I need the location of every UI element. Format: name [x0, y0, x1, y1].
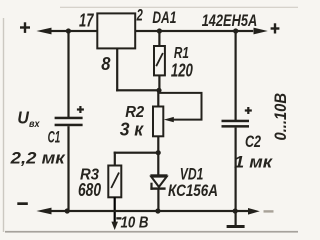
wire input rail with left arrow: [36, 28, 97, 35]
capacitor C2: [222, 31, 252, 212]
input plus terminal: [20, 22, 30, 33]
svg-text:U: U: [17, 108, 29, 128]
wire bottom rail with arrows: [36, 208, 259, 215]
minus terminal bottom left: [17, 202, 28, 205]
junction C1 bottom: [65, 208, 70, 213]
zener diode VD1: [150, 153, 167, 211]
svg-text:3 к: 3 к: [120, 120, 144, 140]
wire pin 8 to junction: [116, 48, 159, 91]
ground: [227, 211, 245, 228]
junction R1 top: [157, 28, 162, 33]
svg-text:1 мк: 1 мк: [234, 153, 273, 172]
svg-text:2,2 мк: 2,2 мк: [10, 149, 67, 168]
output plus terminal: [271, 23, 280, 33]
svg-text:17: 17: [79, 10, 95, 31]
svg-text:DA1: DA1: [152, 9, 176, 27]
wire junction to R3: [114, 152, 159, 166]
junction pin8 R1 R2: [156, 88, 161, 93]
dash before 10 V: [116, 217, 121, 219]
regulator DA1 box: [97, 13, 135, 48]
svg-text:вх: вх: [29, 118, 40, 130]
capacitor C1: [55, 31, 84, 211]
svg-text:10 В: 10 В: [121, 215, 149, 232]
svg-text:С1: С1: [48, 129, 61, 147]
svg-text:2: 2: [136, 7, 143, 25]
resistor R3: [108, 166, 121, 224]
svg-text:R1: R1: [174, 45, 189, 62]
arrow to -10V below rail: [111, 222, 118, 230]
resistor R1: [154, 31, 165, 90]
output minus terminal faint: [264, 210, 274, 212]
svg-text:8: 8: [101, 53, 111, 74]
wire R2 wiper loop: [158, 93, 201, 120]
svg-text:КС156А: КС156А: [168, 181, 218, 200]
junction C2 top: [233, 28, 238, 33]
svg-text:120: 120: [171, 61, 193, 81]
junction C1 top: [66, 28, 71, 33]
junction R2 R3 VD1: [156, 150, 161, 155]
svg-text:680: 680: [78, 180, 101, 200]
junction C2 bottom: [233, 208, 238, 213]
wire output rail with right arrow: [135, 28, 268, 35]
svg-text:R2: R2: [125, 104, 144, 121]
svg-text:142ЕН5А: 142ЕН5А: [202, 11, 258, 30]
junction VD1 bottom: [155, 208, 160, 213]
svg-text:С2: С2: [245, 133, 261, 151]
svg-text:0...10В: 0...10В: [271, 93, 290, 141]
potentiometer R2: [153, 90, 163, 153]
